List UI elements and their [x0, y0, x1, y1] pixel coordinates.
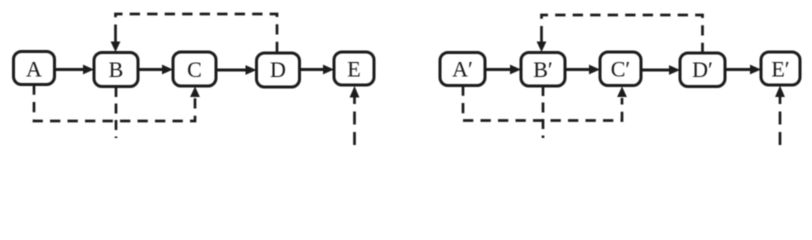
box B' [521, 53, 565, 87]
dashed arrow into E (bottom) [350, 86, 360, 145]
arrow B to C [138, 65, 173, 75]
svg-text:B′: B′ [533, 57, 553, 82]
dashed tail below B [115, 87, 118, 138]
box C' [600, 52, 641, 86]
box B [94, 53, 138, 87]
svg-text:C: C [187, 57, 202, 82]
box D' [680, 53, 725, 87]
box D [257, 53, 300, 87]
box A [14, 52, 55, 85]
arrow D to E [300, 65, 335, 75]
box C [173, 52, 216, 86]
dashed link A to C (bottom) [34, 85, 200, 122]
svg-text:D: D [270, 57, 286, 82]
box E [334, 52, 374, 85]
svg-text:D′: D′ [692, 57, 713, 82]
arrow A' to B' [485, 65, 521, 75]
dashed arrow into E' (bottom) [775, 86, 785, 146]
svg-text:E′: E′ [771, 57, 789, 82]
box E' [761, 52, 800, 85]
arrow A to B [55, 65, 95, 75]
svg-text:A′: A′ [452, 57, 473, 82]
svg-text:C′: C′ [611, 57, 631, 82]
svg-text:A: A [26, 56, 42, 81]
arrow C to D [216, 65, 257, 75]
dashed feedback D' to B' (top) [537, 15, 703, 53]
svg-text:E: E [347, 57, 360, 82]
box A' [440, 53, 485, 86]
svg-text:B: B [109, 57, 124, 82]
arrow D' to E' [725, 65, 761, 75]
dashed feedback D to B (top) [111, 14, 277, 52]
dashed link A' to C' (bottom) [463, 86, 627, 121]
arrow C' to D' [641, 65, 680, 75]
arrow B' to C' [565, 65, 600, 75]
dashed tail below B' [542, 86, 545, 138]
